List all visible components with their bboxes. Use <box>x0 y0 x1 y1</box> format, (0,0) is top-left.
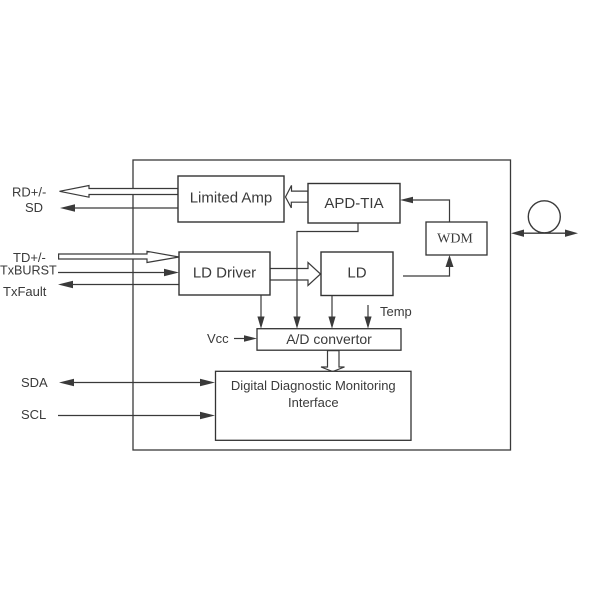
wire Vcc into A/D convertor <box>234 335 257 342</box>
svg-text:SDA: SDA <box>21 375 48 390</box>
svg-text:Temp: Temp <box>380 304 412 319</box>
wire LD to WDM <box>403 255 454 276</box>
wire APD-TIA down to A/D convertor (drawn over block arrow) <box>293 223 358 329</box>
wire SCL into DDM interface <box>58 412 215 419</box>
wire LD down to A/D convertor <box>328 296 335 329</box>
block WDM <box>426 222 487 255</box>
block LD <box>321 252 393 296</box>
svg-text:Limited Amp: Limited Amp <box>190 190 273 207</box>
svg-text:RD+/-: RD+/- <box>12 185 46 200</box>
block arrow APD-TIA to Limited Amp <box>286 185 309 208</box>
svg-text:WDM: WDM <box>437 232 473 247</box>
wire LD Driver down to A/D convertor <box>257 295 264 329</box>
wire Temp down to A/D convertor <box>364 305 371 329</box>
block APD-TIA <box>308 184 400 224</box>
module outline box <box>133 160 511 450</box>
block Digital Diagnostic Monitoring Interface <box>216 371 412 440</box>
wire WDM up to APD-TIA <box>400 197 450 222</box>
svg-text:Interface: Interface <box>288 395 339 410</box>
svg-text:LD Driver: LD Driver <box>193 265 256 282</box>
block arrow TD+/- into LD Driver <box>59 251 179 262</box>
svg-text:TxBURST: TxBURST <box>0 264 57 278</box>
wire SDA bidirectional to DDM interface <box>59 379 215 386</box>
fiber loop circle <box>528 201 560 233</box>
svg-text:APD-TIA: APD-TIA <box>324 195 383 212</box>
block arrow RD+/- out of Limited Amp <box>60 186 179 198</box>
svg-text:A/D convertor: A/D convertor <box>286 331 372 347</box>
svg-text:SCL: SCL <box>21 407 46 422</box>
svg-text:LD: LD <box>347 265 366 282</box>
svg-text:SD: SD <box>25 200 43 215</box>
svg-text:Digital Diagnostic Monitoring: Digital Diagnostic Monitoring <box>231 378 396 393</box>
wire TxFault from LD Driver to left <box>58 281 179 288</box>
wire fiber pigtail bidirectional <box>511 230 578 237</box>
block arrow A/D convertor down to DDM <box>321 351 345 372</box>
block arrow LD Driver to LD <box>270 263 321 286</box>
block A/D convertor <box>257 329 401 351</box>
wire SD from Limited Amp to left <box>60 204 178 211</box>
wire TxBURST into LD Driver <box>58 269 179 276</box>
block Limited Amp <box>178 176 284 222</box>
svg-text:TxFault: TxFault <box>3 284 47 299</box>
block LD Driver <box>179 252 270 295</box>
svg-text:Vcc: Vcc <box>207 331 229 346</box>
